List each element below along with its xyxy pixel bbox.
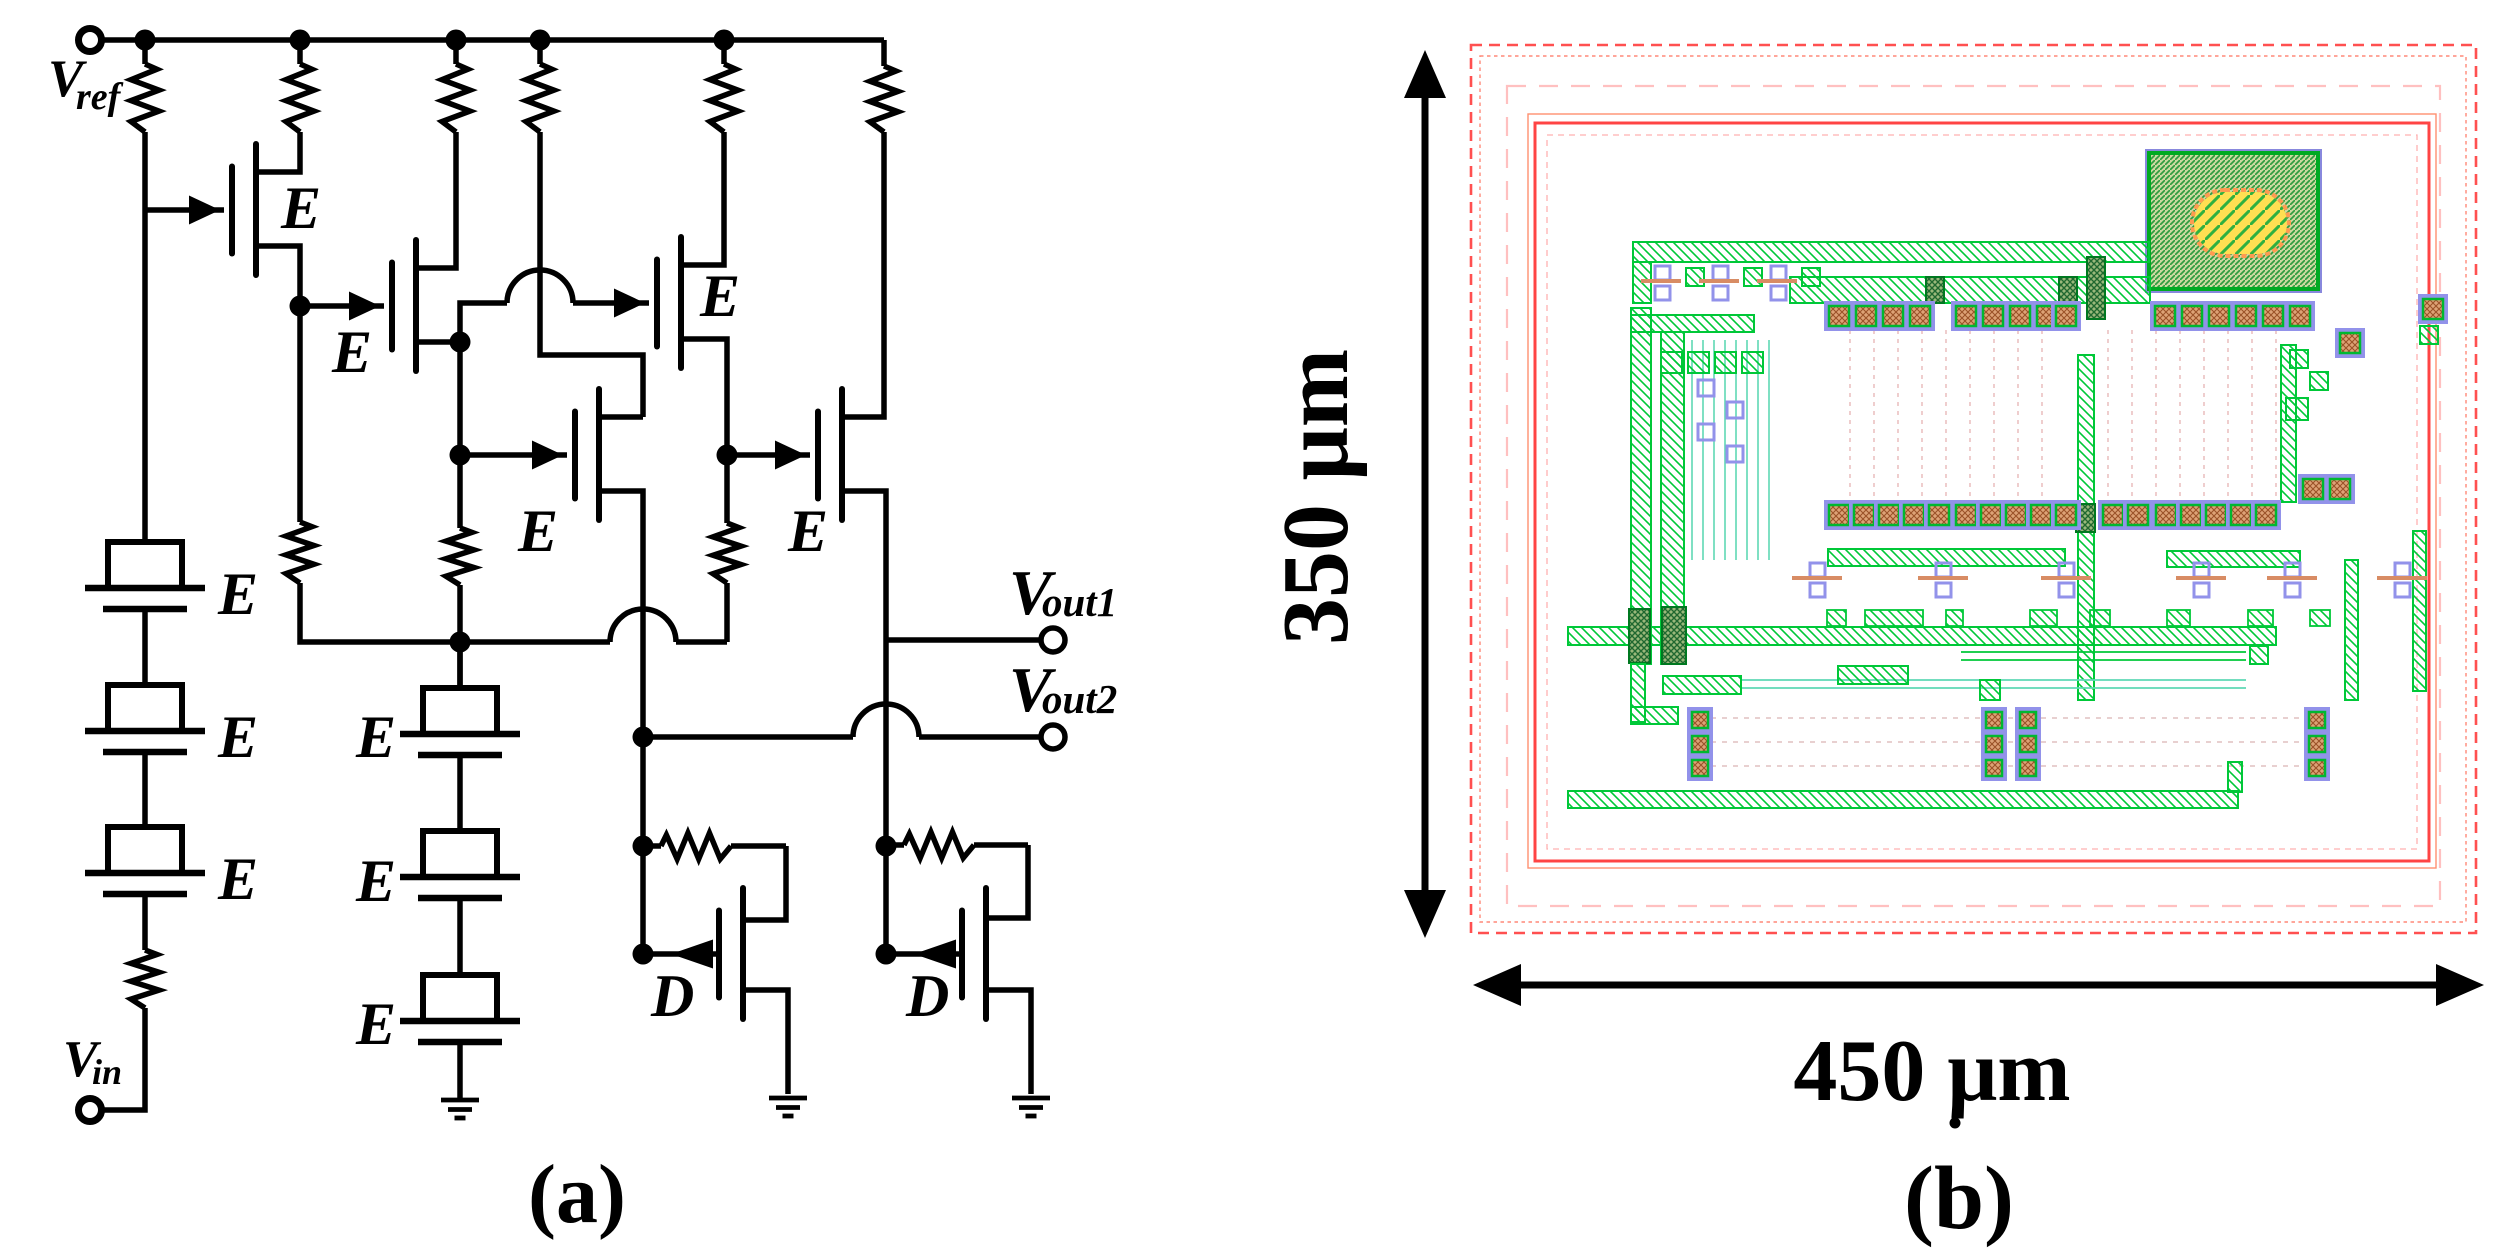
svg-text:E: E bbox=[217, 846, 258, 912]
wire bridge to E3 gate bbox=[460, 303, 649, 342]
svg-text:E: E bbox=[217, 704, 258, 770]
diode-connected FET E11 bbox=[400, 975, 520, 1042]
label E10 bbox=[355, 848, 396, 914]
svg-text:E: E bbox=[787, 498, 828, 564]
svg-text:(a): (a) bbox=[528, 1148, 626, 1241]
diode-connected FET E6 bbox=[85, 542, 205, 609]
wire to Vin bbox=[103, 1008, 145, 1110]
label (b) bbox=[1904, 1149, 2014, 1248]
svg-text:out1: out1 bbox=[1042, 579, 1117, 625]
label Vout1 bbox=[1009, 557, 1117, 628]
resistor R8 bbox=[446, 528, 474, 585]
wire col E2-source mid bbox=[457, 585, 463, 688]
layout left vertical 2 bbox=[1661, 332, 1684, 664]
wire E2 gate lead bbox=[300, 303, 384, 309]
via pair right bbox=[2300, 476, 2353, 502]
layout right vertical a bbox=[2281, 345, 2296, 502]
node dot E2 source bbox=[450, 332, 471, 353]
resistor R2 bbox=[286, 40, 314, 132]
transistor E3 bbox=[614, 237, 681, 368]
wire col1 down bbox=[142, 132, 148, 545]
wire Vref top bus bbox=[99, 40, 884, 66]
transistor E4 bbox=[532, 389, 599, 520]
wire Vout1 bbox=[886, 637, 1039, 643]
transistor E5 bbox=[775, 389, 842, 520]
label E2 bbox=[331, 319, 372, 385]
node dot E1 source bbox=[290, 296, 311, 317]
label E1 bbox=[280, 175, 321, 241]
svg-text:E: E bbox=[355, 848, 396, 914]
left top bar bbox=[1631, 315, 1754, 332]
via columns bottom bbox=[1689, 709, 2328, 779]
wire stack1 seg3 bbox=[142, 894, 148, 950]
node dot bus x540 bbox=[530, 30, 551, 51]
resistor R12 Vin bbox=[131, 950, 159, 1008]
svg-text:(b): (b) bbox=[1904, 1149, 2014, 1248]
wire Vout2 bbox=[643, 734, 1039, 740]
arrow vertical 350um bbox=[1404, 50, 1446, 938]
wire mid horizontal to R9 bbox=[460, 583, 727, 642]
wire to stack2 bbox=[457, 642, 463, 688]
diode-connected FET E9 bbox=[400, 688, 520, 755]
layout right vertical c bbox=[2345, 560, 2358, 700]
layout top bar bbox=[1633, 242, 2149, 303]
small pads left mid bbox=[1698, 380, 1743, 462]
wire stack2 seg2 bbox=[457, 898, 463, 975]
node dot Vout2 tap bbox=[633, 727, 654, 748]
frame inner thin bbox=[1528, 114, 2436, 868]
frame outer red bbox=[1471, 45, 2476, 933]
teal vertical wires bbox=[1692, 340, 1769, 560]
dark via pair top bbox=[2087, 257, 2105, 319]
label E9 bbox=[355, 704, 396, 770]
wire stack1 seg2 bbox=[142, 752, 148, 827]
wire E1 gate lead bbox=[145, 207, 224, 213]
resistor R1 bbox=[131, 40, 159, 132]
label D1 bbox=[650, 963, 694, 1029]
via scattered right bbox=[2053, 296, 2446, 356]
label (a) bbox=[528, 1148, 626, 1241]
terminal Vin bbox=[79, 1099, 102, 1122]
resistor R5 bbox=[710, 40, 738, 132]
label D2 bbox=[905, 963, 949, 1029]
frame inner red bbox=[1535, 123, 2429, 861]
terminal Vref bbox=[79, 29, 102, 52]
pad stadium bbox=[2192, 190, 2289, 256]
svg-text:E: E bbox=[280, 175, 321, 241]
frame outer red 2 bbox=[1480, 56, 2466, 922]
label E7 bbox=[217, 704, 258, 770]
label E4 bbox=[517, 498, 558, 564]
node dot D1 gate bbox=[633, 944, 654, 965]
wire E5 source bbox=[842, 491, 886, 954]
dot artifact above (b) bbox=[1950, 1118, 1961, 1129]
layout left vertical 1 bbox=[1631, 308, 1651, 664]
node dot D1 res tap bbox=[633, 836, 654, 857]
wire E1 source bbox=[256, 246, 300, 522]
label Vout2 bbox=[1009, 654, 1117, 725]
svg-text:D: D bbox=[905, 963, 949, 1029]
gate contact pairs bbox=[1792, 563, 2427, 597]
wire D1 source bbox=[743, 990, 788, 1094]
svg-text:E: E bbox=[331, 319, 372, 385]
label 350um bbox=[1264, 349, 1368, 645]
label Vref bbox=[48, 50, 124, 118]
node dot bus x300 bbox=[290, 30, 311, 51]
resistor R9 bbox=[713, 523, 741, 583]
transistor E2 bbox=[349, 240, 416, 371]
resistor R3 bbox=[442, 40, 470, 132]
wire D1 drain bbox=[743, 846, 786, 920]
wire stack2 to ground bbox=[457, 1042, 463, 1098]
wire stack2 seg1 bbox=[457, 755, 463, 831]
wire E5 gate lead bbox=[727, 452, 810, 458]
bar mid low bbox=[1838, 666, 2000, 700]
small rect row bbox=[1827, 610, 2330, 626]
wire D2 gate lead bbox=[886, 951, 962, 957]
terminal Vout2 bbox=[1041, 725, 1065, 749]
squares right cluster bbox=[2286, 326, 2438, 420]
via row upper bbox=[1826, 303, 2286, 329]
label E8 bbox=[217, 846, 258, 912]
label E3 bbox=[699, 263, 740, 329]
resistor R4 bbox=[526, 40, 554, 132]
wire D2 source bbox=[986, 990, 1031, 1094]
node dot E3 source tap bbox=[717, 445, 738, 466]
wire E2 source bbox=[416, 342, 460, 528]
bar left low bbox=[1631, 664, 1741, 724]
wire D2 drain bbox=[986, 845, 1028, 918]
ground D1 bbox=[769, 1098, 807, 1116]
diode-connected FET E7 bbox=[85, 685, 205, 752]
terminal Vout1 bbox=[1041, 628, 1065, 652]
arrow horizontal 450um bbox=[1473, 964, 2484, 1006]
layout central vertical bbox=[2076, 355, 2095, 700]
bar below array left bbox=[1828, 549, 2065, 566]
svg-text:E: E bbox=[517, 498, 558, 564]
wire E4 source bbox=[599, 491, 643, 954]
svg-text:E: E bbox=[355, 704, 396, 770]
wire E3 source bbox=[681, 339, 727, 523]
node dot bus x724 bbox=[714, 30, 735, 51]
svg-text:in: in bbox=[92, 1052, 122, 1092]
svg-text:D: D bbox=[650, 963, 694, 1029]
transistor E1 bbox=[189, 144, 256, 275]
dashed row connectors bbox=[1700, 718, 2310, 766]
array dashed columns bbox=[1850, 330, 2276, 500]
pad bond rect bbox=[2146, 150, 2321, 292]
resistor R7 bbox=[286, 522, 314, 583]
node dot mid wire x460 bbox=[450, 632, 471, 653]
wire E5 drain bbox=[842, 132, 884, 417]
node dot E4 gate tap bbox=[450, 445, 471, 466]
via row lower bbox=[1826, 502, 2279, 528]
layout mid bar bbox=[1568, 607, 2276, 664]
thin teal pair bbox=[1741, 680, 2246, 688]
layout bottom bar bbox=[1568, 762, 2242, 808]
svg-text:out2: out2 bbox=[1042, 676, 1117, 722]
svg-text:ref: ref bbox=[76, 76, 124, 118]
svg-text:450 μm: 450 μm bbox=[1793, 1023, 2070, 1120]
wire E4 drain lead bbox=[599, 414, 643, 420]
ground stack2 bbox=[441, 1100, 479, 1118]
pads row top-left bbox=[1641, 266, 1820, 300]
node dot D2 gate bbox=[876, 944, 897, 965]
wire E2 drain bbox=[416, 132, 456, 268]
resistor R6 bbox=[870, 66, 898, 132]
svg-text:E: E bbox=[699, 263, 740, 329]
label E11 bbox=[355, 991, 396, 1057]
wire E4 gate lead bbox=[460, 452, 567, 458]
node dot bus x145 bbox=[135, 30, 156, 51]
svg-text:350 μm: 350 μm bbox=[1264, 349, 1368, 645]
squares left cluster bbox=[1661, 352, 1763, 373]
diode-connected FET E10 bbox=[400, 831, 520, 898]
label E6 bbox=[217, 561, 258, 627]
svg-text:E: E bbox=[355, 991, 396, 1057]
thin green pair bbox=[1961, 646, 2268, 664]
layout second bar bbox=[1790, 277, 2150, 303]
transistor D2 bbox=[914, 888, 986, 1019]
wire hump over E4 source column bbox=[610, 609, 676, 642]
node dot D2 res tap bbox=[876, 836, 897, 857]
wire E3 drain bbox=[681, 132, 724, 265]
frame dashed pink bbox=[1507, 86, 2440, 906]
layout right vertical b bbox=[2413, 531, 2426, 691]
ground D2 bbox=[1012, 1098, 1050, 1116]
label E5 bbox=[787, 498, 828, 564]
wire R7 bottom bbox=[300, 583, 454, 642]
wire stack1 seg1 bbox=[142, 609, 148, 685]
label 450um bbox=[1793, 1023, 2070, 1120]
wire hump over R4 column bbox=[507, 270, 573, 303]
wire R4 column to E4 drain bbox=[540, 132, 643, 417]
wire hump over E5 source column bbox=[853, 704, 919, 737]
svg-text:E: E bbox=[217, 561, 258, 627]
resistor R10 D1 gate bbox=[643, 833, 786, 859]
diode-connected FET E8 bbox=[85, 827, 205, 894]
wire D1 gate lead bbox=[643, 951, 719, 957]
resistor R11 D2 gate bbox=[886, 832, 1028, 858]
wire E1 drain bbox=[256, 132, 300, 172]
bar below array right bbox=[2167, 551, 2300, 567]
label Vin bbox=[63, 1031, 122, 1092]
node dot bus x456 bbox=[446, 30, 467, 51]
transistor D1 bbox=[671, 888, 743, 1019]
frame inner pale dash bbox=[1547, 135, 2417, 849]
